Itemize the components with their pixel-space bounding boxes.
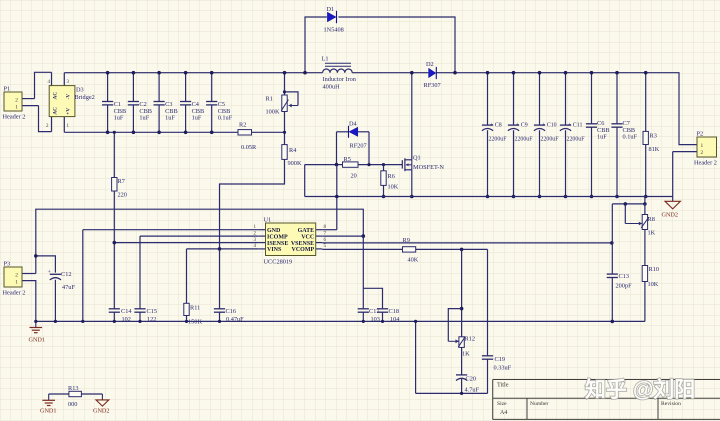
svg-text:ICOMP: ICOMP [267,234,288,240]
svg-text:C17: C17 [369,308,380,315]
svg-text:1K: 1K [648,230,656,237]
svg-text:P3: P3 [4,261,11,268]
svg-text:Size: Size [497,401,507,407]
svg-text:40K: 40K [408,257,419,264]
svg-text:GND1: GND1 [29,337,46,344]
svg-text:GATE: GATE [298,228,315,234]
svg-text:C20: C20 [466,376,477,383]
svg-text:知乎 @刘阳: 知乎 @刘阳 [585,378,695,402]
svg-text:81K: 81K [649,146,660,153]
svg-text:103: 103 [371,316,380,323]
svg-text:1uF: 1uF [192,115,202,122]
svg-text:C13: C13 [619,273,630,280]
svg-text:+ C11: + C11 [568,122,582,128]
svg-text:R7: R7 [118,178,125,185]
svg-text:Header 2: Header 2 [3,114,26,121]
svg-text:220: 220 [118,192,127,199]
svg-text:4.7uF: 4.7uF [465,387,480,394]
svg-text:2: 2 [701,150,704,156]
svg-text:1: 1 [701,143,704,149]
svg-text:Header 2: Header 2 [694,160,717,167]
svg-text:+ C9: + C9 [516,122,528,128]
svg-text:D3: D3 [76,87,84,94]
svg-text:Number: Number [530,401,548,407]
svg-text:2200uF: 2200uF [541,136,560,142]
svg-text:C19: C19 [495,356,506,363]
svg-text:R10: R10 [649,266,660,273]
svg-text:1K: 1K [462,351,470,358]
svg-text:GND2: GND2 [662,212,679,219]
svg-text:L1: L1 [322,56,329,63]
svg-text:R4: R4 [289,147,297,154]
svg-text:VCC: VCC [301,234,314,240]
svg-text:200pF: 200pF [616,283,633,290]
svg-text:U1: U1 [264,217,272,224]
svg-text:D1: D1 [327,6,335,13]
svg-text:10K: 10K [388,184,399,191]
svg-text:R12: R12 [465,336,476,343]
svg-text:122: 122 [147,316,156,323]
svg-text:C15: C15 [147,308,158,315]
svg-text:C18: C18 [389,308,400,315]
svg-text:RF207: RF207 [350,143,367,150]
svg-text:2: 2 [15,98,18,104]
svg-text:104: 104 [390,316,400,323]
svg-text:2200uF: 2200uF [515,136,534,142]
svg-text:R8: R8 [648,216,655,223]
svg-text:GND1: GND1 [40,408,57,415]
svg-text:100K: 100K [266,109,280,116]
svg-text:150K: 150K [188,319,202,326]
svg-text:1: 1 [15,280,18,286]
svg-text:UCC28019: UCC28019 [264,259,293,266]
svg-text:RF307: RF307 [424,82,441,89]
svg-text:P2: P2 [697,131,704,138]
svg-text:Revision: Revision [661,401,681,407]
svg-text:R1: R1 [266,96,273,103]
svg-text:1uF: 1uF [597,134,607,141]
svg-text:A4: A4 [500,410,507,416]
svg-text:R6: R6 [388,173,395,180]
svg-text:R9: R9 [403,237,410,244]
svg-text:400uH: 400uH [323,84,341,91]
svg-text:Bridge2: Bridge2 [75,94,95,101]
svg-text:P1: P1 [4,86,11,93]
svg-text:2200uF: 2200uF [489,136,508,142]
svg-text:-V: -V [66,94,72,100]
svg-text:C12: C12 [61,271,72,278]
svg-text:Header 2: Header 2 [3,290,26,297]
svg-text:000: 000 [68,401,77,408]
svg-text:+ C8: + C8 [490,122,502,128]
svg-text:R11: R11 [190,305,200,312]
svg-text:2: 2 [15,273,18,279]
svg-text:D4: D4 [349,121,358,128]
svg-text:GND2: GND2 [93,408,110,415]
svg-text:0.1uF: 0.1uF [623,134,638,141]
svg-text:VINS: VINS [267,247,282,253]
svg-text:0.47uF: 0.47uF [226,316,244,323]
svg-text:1N5408: 1N5408 [324,27,344,34]
svg-text:1uF: 1uF [139,115,149,122]
svg-text:C14: C14 [121,308,132,315]
svg-text:Title: Title [497,382,509,389]
svg-text:47uF: 47uF [62,284,75,291]
svg-text:900K: 900K [288,160,302,167]
svg-text:AC: AC [53,92,59,100]
svg-text:R3: R3 [650,133,657,140]
svg-text:102: 102 [122,316,131,323]
svg-text:GND: GND [267,228,281,234]
svg-text:0.33uF: 0.33uF [494,365,512,372]
svg-text:0.1uF: 0.1uF [218,115,233,122]
svg-text:1uF: 1uF [114,115,124,122]
svg-text:Q1: Q1 [413,155,421,162]
svg-text:+V: +V [66,108,72,115]
svg-text:10K: 10K [648,281,659,288]
svg-text:MOSFET-N: MOSFET-N [413,164,444,171]
svg-text:1uF: 1uF [165,115,175,122]
svg-text:20: 20 [351,173,357,180]
svg-text:2200uF: 2200uF [567,136,586,142]
svg-text:R13: R13 [68,385,79,392]
svg-text:VSENSE: VSENSE [291,241,314,247]
svg-text:ISENSE: ISENSE [267,241,288,247]
svg-text:R2: R2 [239,122,246,129]
svg-text:1: 1 [15,105,18,111]
svg-text:R5: R5 [344,156,351,163]
svg-text:Inductor Iron: Inductor Iron [323,76,357,83]
svg-text:C16: C16 [226,308,237,315]
svg-text:0.05R: 0.05R [241,144,257,151]
svg-text:AC: AC [53,107,59,115]
svg-text:+ C10: + C10 [542,122,557,128]
svg-text:VCOMP: VCOMP [292,247,315,253]
svg-text:D2: D2 [426,61,434,68]
